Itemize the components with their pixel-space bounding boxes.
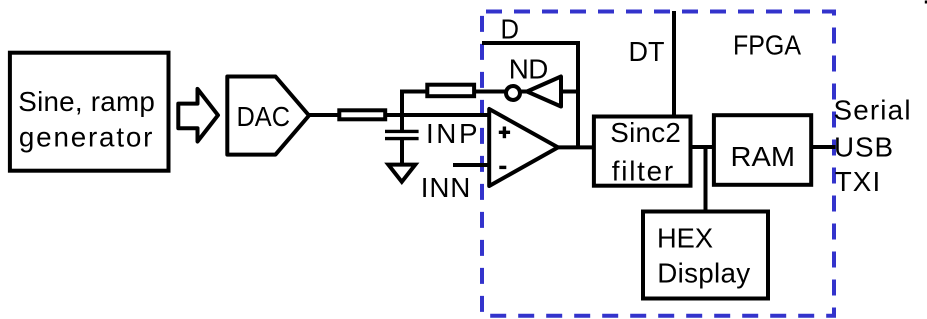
svg-text:Sine, ramp: Sine, ramp: [18, 86, 155, 117]
svg-text:INN: INN: [421, 172, 471, 203]
svg-text:Serial: Serial: [834, 95, 911, 126]
svg-text:DAC: DAC: [237, 101, 291, 132]
svg-text:INP: INP: [426, 118, 478, 149]
svg-text:generator: generator: [19, 122, 153, 153]
svg-text:HEX: HEX: [657, 223, 713, 254]
svg-text:FPGA: FPGA: [733, 30, 801, 61]
svg-text:Display: Display: [657, 257, 750, 288]
svg-text:TXI: TXI: [835, 166, 881, 197]
svg-text:Sinc2: Sinc2: [610, 117, 681, 148]
svg-text:DT: DT: [629, 36, 665, 67]
svg-text:USB: USB: [834, 132, 893, 163]
svg-text:filter: filter: [612, 156, 674, 187]
svg-text:RAM: RAM: [731, 141, 796, 172]
svg-text:D: D: [501, 13, 520, 44]
svg-text:ND: ND: [509, 54, 549, 85]
